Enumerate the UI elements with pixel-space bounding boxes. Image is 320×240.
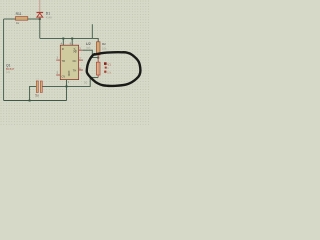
svg-text:CV: CV — [62, 74, 66, 78]
wire: C1 right lead — [42, 85, 66, 87]
svg-text:Q1: Q1 — [6, 63, 11, 67]
node Q junction — [97, 57, 99, 59]
svg-text:4148: 4148 — [46, 15, 52, 19]
svg-text:V1: V1 — [107, 62, 111, 66]
wire: 555 pin8 stub — [71, 38, 73, 45]
svg-text:D1: D1 — [46, 11, 50, 15]
svg-text:R11: R11 — [16, 12, 22, 16]
wire: stub up at x=92 — [91, 24, 93, 38]
svg-text:TH: TH — [73, 69, 77, 73]
capacitor C1 — [35, 78, 42, 98]
wire: rail step to R2 — [92, 38, 98, 41]
wire: C1 left lead — [30, 86, 37, 100]
svg-text:50: 50 — [84, 81, 88, 85]
svg-text:VCC: VCC — [73, 48, 76, 53]
svg-text:555: 555 — [86, 46, 91, 50]
wire: left vertical rail — [3, 19, 5, 101]
wire: top rail — [40, 37, 93, 39]
wire: 555 pin4 stub — [62, 38, 64, 45]
svg-text:R: R — [62, 47, 64, 51]
annotation ellipse — [87, 52, 141, 86]
background — [0, 0, 150, 125]
svg-text:TR: TR — [62, 59, 66, 63]
resistor RV1 (circled) — [96, 58, 111, 75]
diode D1 — [37, 0, 53, 19]
transistor Q1 labels — [6, 63, 15, 74]
wire: R1 to diode node — [28, 18, 40, 20]
svg-text:10k: 10k — [102, 46, 107, 50]
svg-text:U2: U2 — [86, 41, 92, 46]
node C1-left junction — [29, 100, 31, 102]
wire: Q output pin3 — [79, 49, 83, 51]
svg-text:1k: 1k — [16, 21, 20, 25]
pin stub right DC — [79, 59, 83, 61]
node GND junction — [66, 85, 68, 87]
pin stub right TH — [79, 69, 83, 71]
svg-text:DC: DC — [73, 59, 77, 63]
wire: top-left horizontal to R1 — [4, 18, 16, 20]
svg-text:GND: GND — [67, 71, 70, 77]
wire: RV1 bottom to ground run — [97, 75, 99, 77]
wire: bottom rail — [4, 100, 67, 102]
pin stub left TR — [56, 74, 60, 76]
resistor R1 — [16, 12, 28, 25]
svg-text:5u: 5u — [35, 94, 39, 98]
pin stub left CV — [56, 59, 60, 61]
resistor R2 — [96, 42, 107, 58]
node A junction at diode — [39, 18, 41, 20]
svg-text:10k: 10k — [107, 70, 112, 74]
wire: 555 GND pin down — [66, 80, 68, 101]
op-amp U2 555 timer body — [57, 41, 82, 84]
wire: diode node down to top rail — [39, 19, 41, 38]
